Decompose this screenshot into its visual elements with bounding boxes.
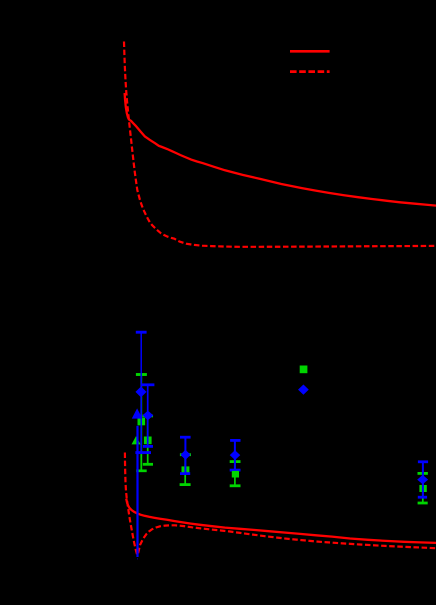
- blue diamond at x=235: [230, 451, 239, 460]
- blue errorbar D2 at x=147.7: [141, 385, 155, 447]
- legend dashed red line sample: [290, 70, 330, 73]
- blue errorbar at x=422.9: [418, 462, 428, 497]
- bottom panel legend blue diamond: [299, 385, 308, 394]
- green errorbar at x=185.2: [180, 455, 191, 485]
- blue errorbar at x=234.9: [230, 440, 241, 470]
- bottom panel legend green square: [300, 366, 307, 373]
- blue diamond at x=185.5: [181, 450, 190, 459]
- green errorbar S2 at x=147.7: [142, 416, 153, 464]
- blue diamond D2: [143, 411, 153, 419]
- blue errorbar at x=185.4: [180, 437, 191, 473]
- green errorbar at x=422.8: [418, 473, 428, 503]
- legend solid red line sample: [290, 50, 330, 53]
- green triangle T2: [132, 437, 140, 444]
- green square at x=185.3: [182, 467, 189, 473]
- blue diamond D1: [136, 387, 146, 397]
- green square S2: [144, 437, 151, 444]
- green square S1: [138, 418, 145, 425]
- bottom panel solid red curve: [126, 499, 436, 543]
- top panel dashed red curve: [124, 42, 436, 247]
- bottom panel dashed red curve: [125, 453, 436, 555]
- green errorbar S1 at x=141.3: [136, 375, 147, 471]
- green square at x=235.4 (drawn over blue cap): [232, 471, 238, 477]
- blue long errorbar D1 at x=140.7: [135, 332, 151, 453]
- green errorbar at x=234.9: [230, 462, 241, 486]
- green square at x=423.1: [420, 485, 427, 491]
- blue diamond at x=422.7: [418, 476, 428, 484]
- blue thick errorbar (triangle T1) at x=138.1: [136, 426, 139, 559]
- blue triangle T1: [133, 409, 142, 418]
- top panel solid red curve: [125, 93, 436, 206]
